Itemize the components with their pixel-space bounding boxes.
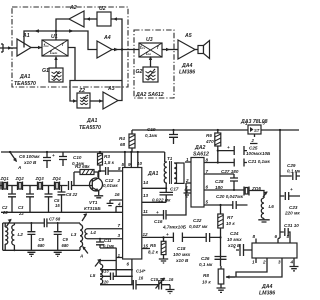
wire input AM line <box>1 211 123 213</box>
svg-text:180: 180 <box>215 185 223 190</box>
pin 4 bottom <box>293 258 295 266</box>
svg-text:680: 680 <box>62 243 70 248</box>
pin 1 stub <box>185 161 191 163</box>
svg-text:L3: L3 <box>71 232 77 237</box>
svg-text:С28: С28 <box>215 179 224 184</box>
svg-text:С11: С11 <box>104 238 112 243</box>
DA1 TEA5570 chain-dot border <box>12 7 128 87</box>
svg-text:16: 16 <box>115 192 121 197</box>
transistor VT1 <box>90 178 103 191</box>
svg-text:КТ315Б: КТ315Б <box>84 206 101 211</box>
wire right column vertical <box>279 130 281 238</box>
svg-text:ZQ1: ZQ1 <box>0 176 9 181</box>
svg-text:С9: С9 <box>63 237 69 242</box>
amplifier A5 <box>178 40 195 59</box>
pin 5 wire <box>204 204 233 206</box>
svg-text:16: 16 <box>139 276 144 281</box>
trimmer C15 series <box>156 278 171 289</box>
capacitor C22 <box>206 233 220 242</box>
wire <box>8 185 18 187</box>
amplifier A3 <box>103 92 118 109</box>
amplifier A1 <box>17 39 31 56</box>
pin 14 wire <box>142 183 166 188</box>
svg-text:4: 4 <box>290 260 294 265</box>
svg-text:4,7мкх10Б: 4,7мкх10Б <box>162 225 187 230</box>
svg-text:SТ: SТ <box>254 128 260 133</box>
svg-text:R3: R3 <box>104 154 110 159</box>
capacitor C16 <box>142 183 186 220</box>
svg-text:ДА4: ДА4 <box>261 284 272 290</box>
svg-text:+: + <box>290 187 293 192</box>
filter Z2 <box>77 93 90 108</box>
svg-text:А4: А4 <box>103 35 111 41</box>
svg-text:0,1мк: 0,1мк <box>145 133 158 138</box>
svg-text:х10 В: х10 В <box>23 160 37 165</box>
svg-text:С31 10: С31 10 <box>284 223 299 228</box>
svg-text:С9: С9 <box>39 237 45 242</box>
resistor R6 <box>217 129 219 131</box>
inductor L4 <box>85 229 88 239</box>
svg-text:L5: L5 <box>90 273 96 278</box>
capacitor C4 <box>45 186 53 213</box>
svg-text:С18: С18 <box>177 246 186 251</box>
svg-text:100мкх10Б: 100мкх10Б <box>246 151 271 156</box>
svg-text:А1: А1 <box>22 33 30 39</box>
wire pin1 down <box>115 248 117 276</box>
wire pin1 <box>100 248 123 258</box>
svg-text:3: 3 <box>118 233 121 238</box>
wire L5 tap to pin6 vertical <box>100 269 132 271</box>
capacitor 680 second <box>57 222 59 224</box>
wire A1 to U1 <box>31 47 42 49</box>
svg-text:10: 10 <box>137 161 143 166</box>
svg-text:8,2 к: 8,2 к <box>148 250 159 255</box>
svg-text:11: 11 <box>143 209 148 214</box>
svg-text:10 к: 10 к <box>226 221 235 226</box>
pin 7 wire <box>204 173 234 175</box>
svg-text:ДА2: ДА2 <box>194 145 205 151</box>
svg-text:R6: R6 <box>206 133 212 138</box>
variable arrow over L5 <box>95 260 101 267</box>
svg-text:ТЕА5570: ТЕА5570 <box>14 81 36 87</box>
pin 6 wire <box>204 189 244 191</box>
pin 15 stub <box>142 248 150 250</box>
svg-text:L6: L6 <box>269 204 275 209</box>
capacitor C13 <box>100 273 132 281</box>
ground bottom line <box>166 285 175 294</box>
svg-text:ДА1: ДА1 <box>147 171 158 177</box>
pin 2 wire <box>186 182 191 184</box>
svg-text:ZQ3: ZQ3 <box>35 176 45 181</box>
crystal G1 <box>49 68 63 82</box>
svg-text:10 к: 10 к <box>202 280 211 285</box>
svg-text:+: + <box>166 232 169 237</box>
ground pin4 <box>290 267 299 271</box>
pin 10 wire <box>137 152 139 168</box>
svg-text:ДА1: ДА1 <box>19 74 30 80</box>
svg-text:0,047 мк: 0,047 мк <box>189 224 208 229</box>
svg-text:4: 4 <box>117 202 121 207</box>
wire U2 to A2 <box>84 18 97 20</box>
wire U1 output down <box>68 48 75 81</box>
svg-text:8: 8 <box>118 166 121 171</box>
svg-text:6: 6 <box>206 185 209 190</box>
svg-text:0,1 мк: 0,1 мк <box>199 262 213 267</box>
resistor R5 <box>161 241 166 254</box>
wire <box>43 185 55 187</box>
capacitor C23 electrolytic <box>280 192 300 200</box>
svg-text:С23: С23 <box>289 205 298 210</box>
wire loop line <box>70 81 122 102</box>
svg-text:fпч: fпч <box>140 45 145 50</box>
input connector plug <box>0 44 7 52</box>
node bus-C6 <box>46 151 48 153</box>
wire <box>23 185 38 187</box>
capacitor C9 <box>30 222 32 224</box>
svg-text:LМ386: LМ386 <box>259 291 275 297</box>
wire A4 output to U3 <box>112 49 139 51</box>
svg-text:8: 8 <box>253 234 256 239</box>
wire R3 to collector node <box>99 165 101 171</box>
svg-text:U1: U1 <box>51 34 58 40</box>
svg-text:R8: R8 <box>203 273 209 278</box>
svg-text:ДА2 SА612: ДА2 SА612 <box>135 92 164 98</box>
input plug lower <box>0 182 3 190</box>
svg-text:ZQ4: ZQ4 <box>52 176 62 181</box>
wire G2 to U3 <box>150 57 152 67</box>
svg-text:L2: L2 <box>18 232 24 237</box>
svg-text:R2 68к: R2 68к <box>75 164 90 169</box>
wire tank bottom rail <box>3 249 80 251</box>
svg-text:L4: L4 <box>91 230 97 235</box>
svg-text:1: 1 <box>118 253 121 258</box>
svg-text:А3: А3 <box>107 86 115 92</box>
mixer U1 <box>42 40 68 56</box>
capacitor C7 series <box>44 218 47 227</box>
inductor L1 <box>3 223 5 250</box>
svg-text:0,01мк: 0,01мк <box>103 183 118 188</box>
variable arrow over L1 L2 <box>7 220 12 227</box>
pin 13 wire <box>142 201 166 203</box>
svg-text:R5: R5 <box>150 243 156 248</box>
capacitor C17 <box>160 188 174 202</box>
amplifier A2 (points left) <box>69 11 84 27</box>
svg-text:С24: С24 <box>230 231 239 236</box>
svg-text:12: 12 <box>143 232 149 237</box>
svg-text:15: 15 <box>55 203 60 208</box>
pin 1 bottom <box>255 258 257 263</box>
pin 12 wire <box>142 236 174 238</box>
svg-text:А5: А5 <box>184 33 192 39</box>
capacitor C11 <box>96 239 104 248</box>
svg-text:+: + <box>156 210 159 215</box>
ground emitter <box>94 196 103 198</box>
pin 3 wire to ground <box>184 190 192 197</box>
svg-text:2: 2 <box>262 260 266 265</box>
svg-text:х10 В: х10 В <box>175 258 189 263</box>
svg-text:0,022 мк: 0,022 мк <box>152 198 171 203</box>
wire node up to U2 <box>111 19 122 50</box>
discriminator U2 <box>97 12 111 26</box>
node rail right <box>279 129 281 131</box>
svg-text:+: + <box>227 145 230 150</box>
svg-text:680: 680 <box>38 243 46 248</box>
wire U3 out to A5 <box>162 49 178 51</box>
svg-text:0,1 мк: 0,1 мк <box>287 169 300 174</box>
svg-text:U2: U2 <box>99 6 106 12</box>
crystal ZQ5 <box>244 187 249 196</box>
capacitor C10 <box>59 152 67 166</box>
svg-text:Z2: Z2 <box>78 88 85 94</box>
svg-text:С26: С26 <box>201 256 210 261</box>
crystal G2 <box>143 67 158 82</box>
resistor R8 pot <box>218 269 224 284</box>
svg-text:15: 15 <box>143 244 149 249</box>
capacitor C25 electrolytic <box>217 150 219 152</box>
IC DA4 LM386 box <box>252 243 297 258</box>
svg-text:14: 14 <box>143 180 149 185</box>
capacitor C8 series <box>60 181 93 190</box>
svg-text:х10 В: х10 В <box>227 243 241 248</box>
svg-text:LМ386: LМ386 <box>179 70 195 76</box>
svg-text:1: 1 <box>252 260 255 265</box>
svg-text:С21 0,1мк: С21 0,1мк <box>248 159 270 164</box>
capacitor C24 electrolytic <box>236 244 252 256</box>
pin 16 wire to ground <box>107 200 123 206</box>
switch A arm <box>10 152 17 162</box>
wire ZQ5 to L6 <box>249 191 264 199</box>
capacitor C5 <box>58 186 66 213</box>
wire supply rail <box>132 129 299 131</box>
wire Z2 to A3 <box>90 100 103 102</box>
trimmer arrow L6 <box>263 192 267 197</box>
svg-text:7: 7 <box>206 169 209 174</box>
svg-text:G1: G1 <box>42 68 49 74</box>
speaker <box>198 46 204 54</box>
svg-text:1: 1 <box>186 157 189 162</box>
svg-text:С6 100мк: С6 100мк <box>19 154 40 159</box>
pin 8 top <box>255 239 257 244</box>
wire node to A4 input <box>56 31 97 50</box>
svg-text:220 мк: 220 мк <box>284 211 300 216</box>
wire tank line <box>3 222 80 224</box>
IC DA2 box <box>191 158 204 208</box>
svg-text:С13: С13 <box>101 269 109 274</box>
svg-text:С17: С17 <box>170 187 179 192</box>
inductor L6 <box>261 198 264 218</box>
capacitor C6 electrolytic <box>43 152 51 168</box>
wire A2 tip to U1 top node <box>56 19 69 40</box>
svg-text:7: 7 <box>118 223 121 228</box>
ground R8 <box>217 288 226 292</box>
svg-text:2: 2 <box>117 178 121 183</box>
node bus-R3 <box>99 151 101 153</box>
node A4 out <box>121 48 123 50</box>
resistor R3 <box>98 154 103 166</box>
svg-text:100 мкх: 100 мкх <box>173 252 191 257</box>
svg-text:ZQ2: ZQ2 <box>15 176 25 181</box>
capacitor C27 <box>230 174 238 190</box>
svg-text:С14*: С14* <box>136 269 146 274</box>
svg-text:А2: А2 <box>69 5 77 11</box>
capacitor C19 <box>172 129 174 131</box>
variable arrow over L3 <box>82 214 87 221</box>
svg-text:1,5 к: 1,5 к <box>104 160 115 165</box>
svg-text:С15 2,2...16: С15 2,2...16 <box>151 277 174 282</box>
svg-text:U3: U3 <box>146 37 153 43</box>
svg-text:68: 68 <box>120 142 126 147</box>
wire node down to A3 output <box>118 50 122 101</box>
capacitor C14 series <box>133 280 158 290</box>
regulator pin2 stub <box>250 134 258 144</box>
svg-text:ТЕА5570: ТЕА5570 <box>79 125 101 131</box>
capacitor C12 <box>100 167 123 175</box>
svg-text:А: А <box>79 254 83 259</box>
svg-text:С16: С16 <box>154 219 163 224</box>
ground L6 <box>258 218 269 222</box>
capacitor C26 <box>215 257 227 260</box>
wire bottom line from L5 <box>100 284 133 286</box>
svg-text:G2: G2 <box>136 69 143 75</box>
svg-text:10 мкх: 10 мкх <box>227 237 242 242</box>
svg-text:6: 6 <box>275 234 278 239</box>
svg-text:С27 180: С27 180 <box>221 169 239 174</box>
wire input arrow <box>8 46 12 49</box>
pin 2 bottom <box>236 258 267 277</box>
svg-text:5: 5 <box>122 162 125 167</box>
DA2 SA612 chain-dot border <box>134 30 174 98</box>
svg-text:fпч: fпч <box>44 43 49 48</box>
svg-text:С22: С22 <box>193 218 202 223</box>
resistor R7 <box>218 214 223 228</box>
svg-text:С29: С29 <box>287 163 296 168</box>
amplifier A4 <box>97 41 112 58</box>
wire main bus <box>1 151 165 153</box>
svg-text:13: 13 <box>143 193 149 198</box>
ground tank rail <box>27 252 35 256</box>
capacitor C18 <box>173 233 205 243</box>
svg-text:VТ1: VТ1 <box>89 200 98 205</box>
capacitor C29 <box>280 172 300 180</box>
svg-text:С8 22: С8 22 <box>66 192 78 197</box>
inductor L2 <box>13 223 15 250</box>
ground tank rail 2 <box>54 252 62 256</box>
svg-text:9: 9 <box>128 162 131 167</box>
inductor L5 <box>100 261 116 265</box>
crystal ZQ2 <box>18 182 23 191</box>
crystal ZQ3 <box>38 182 43 191</box>
svg-text:470: 470 <box>205 139 214 144</box>
coupling arrow A <box>83 247 88 254</box>
node junction <box>55 30 57 32</box>
wire G1 to U1 arrow <box>55 57 57 68</box>
capacitor C3 <box>26 186 34 213</box>
resistor R2 <box>80 170 94 175</box>
pin 5 wire <box>124 152 126 168</box>
svg-text:5: 5 <box>206 200 209 205</box>
svg-text:А: А <box>17 165 21 170</box>
T1 secondary link box <box>174 163 179 183</box>
svg-text:8: 8 <box>206 158 209 163</box>
capacitor C21 <box>204 159 247 167</box>
pin 6 top <box>278 238 280 243</box>
mixer U3 <box>139 43 162 57</box>
resistor R4 <box>129 134 135 148</box>
svg-text:5: 5 <box>287 234 290 239</box>
svg-text:С20 0,047мк: С20 0,047мк <box>216 194 244 199</box>
svg-text:R7: R7 <box>227 215 233 220</box>
pin 3 bottom <box>226 258 282 277</box>
ground R5 <box>159 259 168 263</box>
wire AGC to A1 <box>24 31 56 48</box>
svg-text:2: 2 <box>251 138 255 143</box>
crystal ZQ4 <box>55 182 60 191</box>
capacitor C2 <box>8 186 16 213</box>
pin 6 stub <box>131 259 133 285</box>
svg-text:6: 6 <box>127 262 130 267</box>
svg-text:С25: С25 <box>249 146 258 151</box>
svg-text:С10: С10 <box>73 155 82 160</box>
svg-text:С3: С3 <box>18 205 24 210</box>
svg-text:С7 68: С7 68 <box>49 217 61 222</box>
wire L4 to pin7 <box>88 228 123 230</box>
svg-text:fгет: fгет <box>50 50 58 55</box>
svg-text:ДА1: ДА1 <box>86 118 97 124</box>
node collector <box>99 170 101 172</box>
crystal ZQ1 <box>3 182 8 191</box>
node bus-switch <box>9 151 11 153</box>
pin 9 wire <box>130 152 132 168</box>
capacitor C20 <box>233 201 248 209</box>
svg-text:+: + <box>52 153 55 158</box>
wire L4 to pin3 <box>88 238 123 240</box>
inductor L3 <box>79 223 81 250</box>
svg-text:fоо: fоо <box>146 51 151 56</box>
svg-text:ДА4: ДА4 <box>181 63 192 69</box>
IC DA1 box <box>123 168 142 260</box>
svg-text:2: 2 <box>185 178 189 183</box>
wire A5 to speaker <box>195 49 198 51</box>
svg-text:R4: R4 <box>119 136 125 141</box>
svg-text:С19: С19 <box>147 127 156 132</box>
svg-text:3: 3 <box>278 260 281 265</box>
svg-text:Т1: Т1 <box>167 156 173 161</box>
junction L2 bottom <box>13 249 15 251</box>
svg-text:120: 120 <box>102 280 110 285</box>
